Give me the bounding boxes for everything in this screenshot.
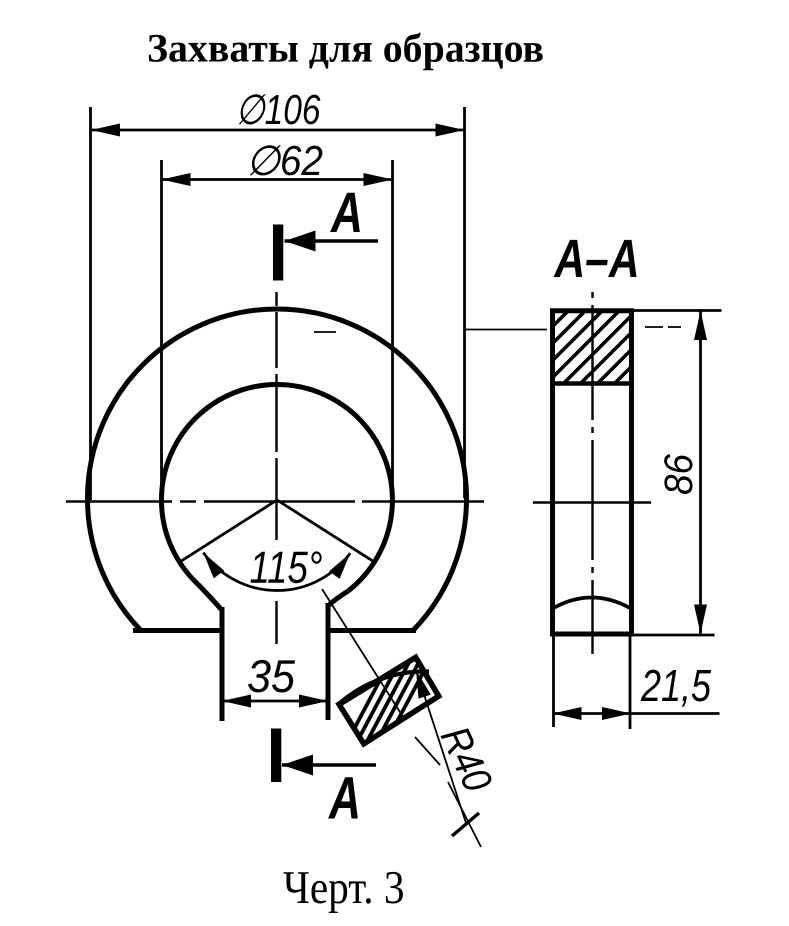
svg-text:A–A: A–A: [553, 229, 640, 289]
svg-text:21,5: 21,5: [640, 660, 712, 711]
svg-text:A: A: [328, 764, 362, 831]
svg-text:A: A: [329, 181, 363, 245]
svg-text:Черт. 3: Черт. 3: [283, 862, 405, 914]
svg-text:115°: 115°: [249, 542, 322, 593]
svg-text:∅62: ∅62: [246, 137, 323, 184]
svg-text:∅106: ∅106: [235, 86, 321, 133]
svg-text:Захваты для образцов: Захваты для образцов: [147, 26, 544, 71]
svg-text:35: 35: [247, 650, 295, 702]
svg-text:86: 86: [657, 453, 701, 495]
